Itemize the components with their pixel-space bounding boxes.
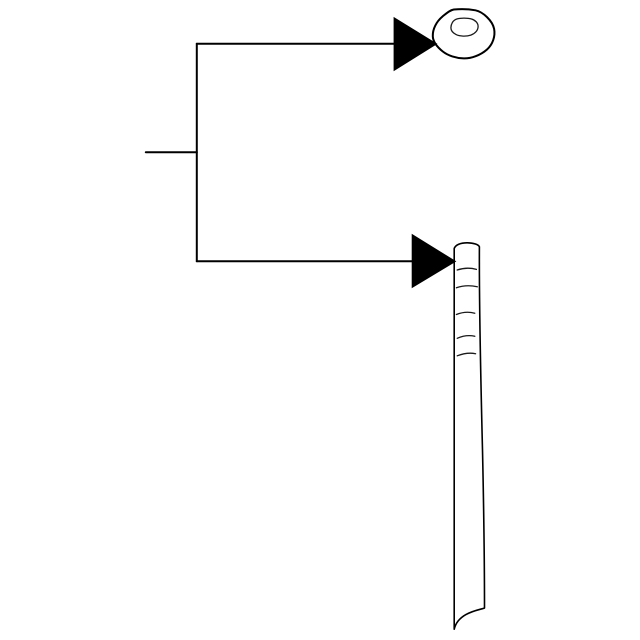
tube tick 2 [456,286,477,288]
tube tick 3 [456,312,474,314]
arrowhead bottom [412,235,455,288]
wire top branch [197,43,396,45]
tube tick 5 [457,353,475,356]
arrowhead top [394,18,436,71]
wire bottom branch [197,260,414,262]
tube body outline [454,243,484,629]
tube tick 4 [457,336,475,339]
node circle inner [451,18,478,36]
wire vertical bus [196,44,198,261]
tube tick 1 [457,268,476,270]
node circle outer [433,9,495,58]
wire input stub [146,151,197,153]
